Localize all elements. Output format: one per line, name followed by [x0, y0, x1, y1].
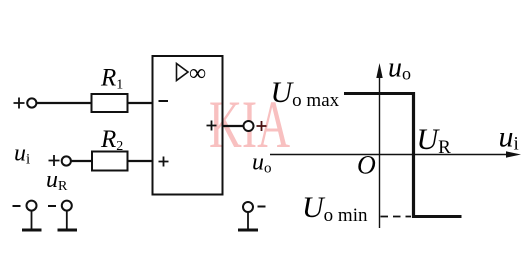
- dashed line to Uo min: [381, 216, 412, 218]
- minus input label: [159, 100, 169, 102]
- terminal + (input ui top): [14, 98, 25, 109]
- ground bar (output): [238, 229, 258, 232]
- minus label right of bottom terminal: [258, 206, 266, 208]
- bottom output terminal circle: [243, 202, 253, 212]
- step vertical line: [412, 92, 415, 218]
- ground bar 1: [22, 229, 42, 232]
- ground bar 2: [58, 229, 78, 232]
- output wire: [223, 125, 244, 127]
- wire R1 to opamp: [128, 102, 153, 104]
- horizontal axis arrowhead: [506, 151, 521, 157]
- wire to R1: [36, 102, 91, 104]
- graph vertical axis uo: [379, 76, 381, 228]
- terminal + (input uR): [49, 155, 60, 166]
- svg-text:∞: ∞: [189, 61, 206, 87]
- svg-text:O: O: [357, 151, 376, 180]
- ground terminal 2 minus: [48, 205, 56, 207]
- ground terminal 2 circle: [62, 201, 72, 211]
- terminal circle uR+: [62, 156, 71, 165]
- wire R2 to opamp: [128, 160, 153, 162]
- Uo max level line: [344, 92, 415, 95]
- ground terminal 1 minus: [13, 205, 21, 207]
- resistor R2: [92, 152, 128, 171]
- graph horizontal axis ui: [270, 154, 508, 156]
- op-amp U1 rectangle: [153, 56, 223, 195]
- ground stem 1: [31, 211, 33, 230]
- op-amp gain triangle: [177, 64, 189, 81]
- Uo min level line: [412, 215, 462, 218]
- resistor R1: [92, 94, 128, 112]
- ground stem (output): [247, 212, 249, 230]
- plus output label (inside): [207, 121, 217, 131]
- output terminal circle: [244, 121, 254, 131]
- ground terminal 1 circle: [27, 201, 37, 211]
- vertical axis arrowhead: [376, 63, 382, 78]
- wire to R2: [71, 160, 92, 162]
- plus label right of output: [257, 121, 267, 131]
- plus input label: [159, 157, 169, 167]
- ground stem 2: [66, 211, 68, 230]
- terminal circle ui+: [27, 98, 36, 107]
